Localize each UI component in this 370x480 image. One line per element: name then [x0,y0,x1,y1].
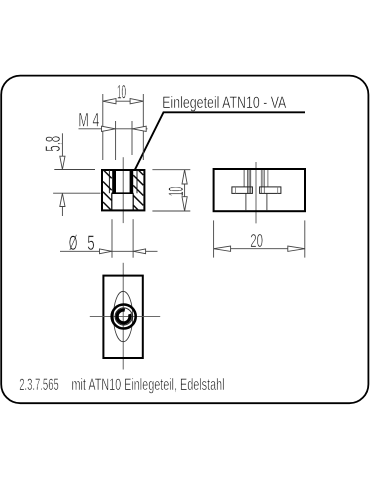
dimension 10 top: right arrow [130,99,143,104]
front view: center line vertical [122,157,124,223]
dimension M4: dimension line [79,128,148,130]
dimension 20: dimension line [214,248,305,250]
dimension M4: right arrow (outside, pointing left) [132,126,146,131]
leader line under annotation [135,112,305,170]
dimension 5,8: vertical dimension line upper [61,133,63,156]
drawing frame [1,76,368,404]
front view: hatching left band [103,170,112,211]
bottom view: horizontal center line [90,316,160,318]
svg-text:5: 5 [87,232,94,255]
dimension diameter 5: extension lines [111,219,113,258]
right view: flange box right inner line [277,187,279,194]
dimension 10 vertical right: bottom arrow [182,197,187,211]
front view: section outline [102,170,144,210]
front view: thread bar right [130,170,134,193]
right view: flange box left inner line [234,187,236,194]
right view: flange box left [232,187,253,194]
svg-text:10: 10 [117,81,126,103]
front view: thread bar left [112,170,116,193]
dimension 20: extension lines [213,220,215,257]
front view: bore wall left [111,193,113,210]
dimension 20: left arrow [214,246,231,251]
svg-text:20: 20 [250,230,263,251]
front view: core hole line right [136,170,138,193]
bottom view: outline [103,276,142,358]
dimension 5,8: extension line top [54,169,95,171]
right view: lower channel walls [245,193,247,210]
right view: center line [255,162,257,223]
dimension 10 top: dimension line [103,100,144,102]
front view: hatching right band [133,170,143,210]
svg-text:mit ATN10 Einlegeteil, Edelsta: mit ATN10 Einlegeteil, Edelstahl [72,376,225,394]
front view: thread bottom line [112,192,134,194]
bottom view: thread arc 3/4 [117,310,130,323]
right view: thread lines left [244,170,251,193]
dimension diameter 5: left arrow (outside, pointing right) [100,249,112,254]
svg-text:2.3.7.565: 2.3.7.565 [19,376,58,394]
dimension 5,8: extension line bottom [53,192,100,194]
dimension 10 vertical right: extension lines [152,169,190,171]
bottom view: outer circle thick [112,305,136,329]
dimension 10 vertical right: dimension line [184,170,186,211]
dimension 5,8: vertical dimension line lower [61,207,63,217]
dimension 5,8: lower arrow (pointing up) [60,193,65,206]
dimension 10 top: left arrow [103,99,116,104]
dimension diameter 5: right arrow (outside, pointing left) [133,249,145,254]
dimension M4: extension lines [115,121,117,160]
dimension 10 top: extension lines [102,94,104,160]
front view: bore wall right [132,193,134,210]
svg-text:Ø: Ø [69,232,77,255]
svg-text:Einlegeteil ATN10 - VA: Einlegeteil ATN10 - VA [162,94,286,112]
svg-text:5,8: 5,8 [42,136,65,152]
dimension M4: left arrow (outside, pointing right) [102,126,116,131]
dimension diameter 5: dimension line [60,250,158,252]
svg-text:10: 10 [165,187,188,197]
front view: core hole line left [108,170,110,193]
dimension 5,8: upper arrow (pointing down) [60,156,65,169]
right view: thread lines right [261,170,268,193]
dimension 10 vertical right: top arrow [182,170,187,184]
bottom view: middle thin circle [115,308,132,325]
dimension 20: right arrow [288,246,305,251]
right view: outline [214,169,305,211]
right view: flange box right [260,187,281,194]
bottom view: ellipse lens [114,291,133,341]
